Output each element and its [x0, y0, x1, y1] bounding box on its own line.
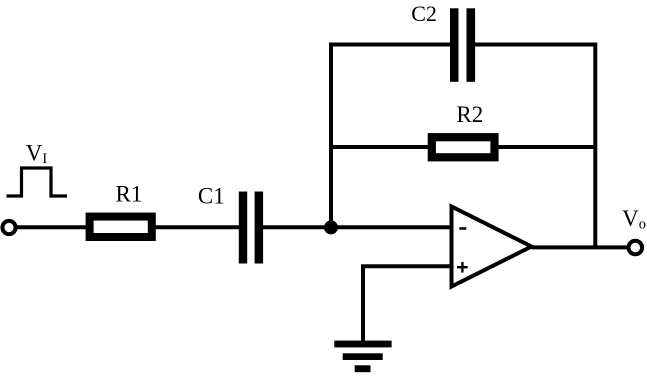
- svg-text:C2: C2: [411, 1, 437, 26]
- svg-text:R2: R2: [456, 102, 483, 127]
- svg-text:C1: C1: [198, 183, 225, 208]
- svg-text:R1: R1: [116, 182, 143, 207]
